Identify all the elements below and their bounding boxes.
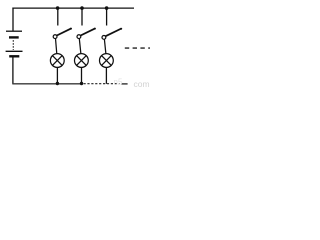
node top junction 1 (56, 6, 60, 10)
wire lamp1 bottom lead (56, 67, 58, 83)
wire right dashed continuation (125, 47, 150, 49)
node bottom junction 1 (56, 82, 59, 85)
node top junction 2 (80, 6, 84, 10)
node bottom junction 2 (80, 82, 83, 85)
switch S3 (102, 28, 122, 40)
wire branch 2 top stub (81, 8, 83, 25)
wire switch3 to lamp3 (104, 39, 106, 54)
wire bottom long dash (121, 83, 127, 85)
battery B1 (6, 31, 23, 56)
wire switch1 to lamp1 (56, 39, 57, 55)
wire branch 3 top stub (106, 8, 108, 25)
svg-text:com: com (134, 79, 150, 89)
wire bottom bus solid (12, 83, 82, 85)
switch S2 (77, 28, 96, 39)
switch S1 (53, 28, 72, 39)
wire left vertical (battery top lead) (12, 8, 14, 31)
node top junction 3 (105, 6, 109, 10)
wire battery bottom lead (12, 58, 14, 84)
wire branch 1 top stub (57, 8, 59, 25)
svg-text:n5: n5 (114, 78, 123, 87)
lamp L2 (75, 54, 89, 68)
wire switch2 to lamp2 (79, 39, 81, 55)
lamp L3 (100, 54, 114, 68)
wire bottom bus dashed continuation (84, 83, 120, 85)
wire lamp2 bottom lead (81, 67, 83, 83)
lamp L1 (50, 54, 64, 68)
wire lamp3 bottom lead (105, 67, 107, 83)
wire top bus (12, 7, 134, 9)
